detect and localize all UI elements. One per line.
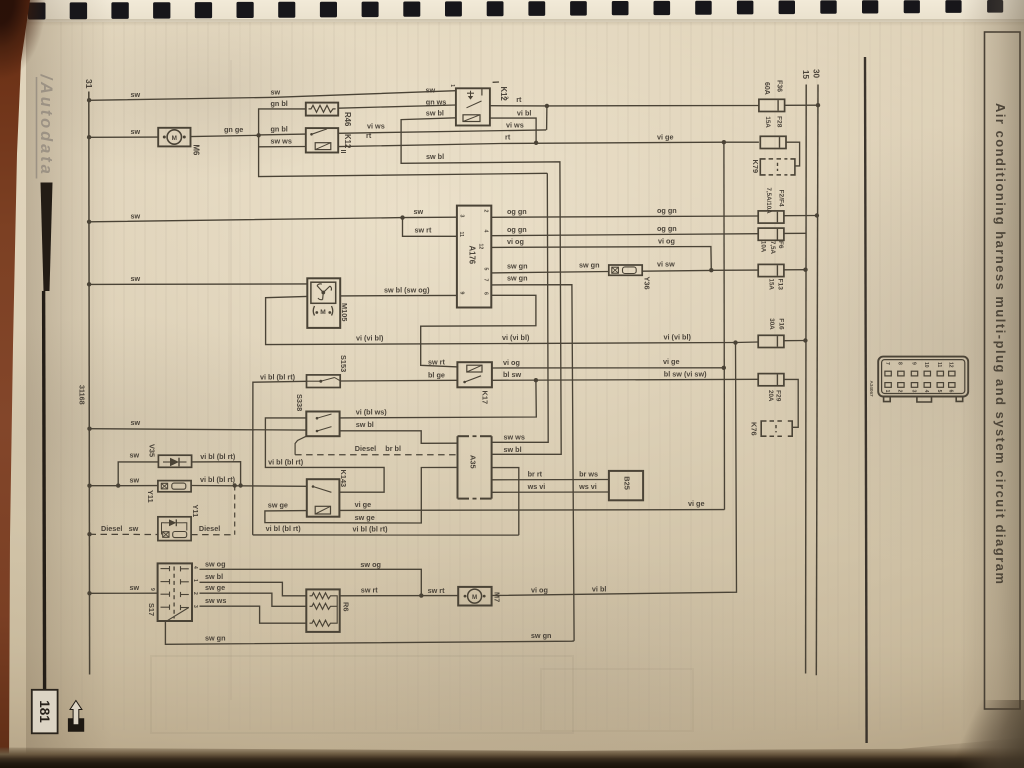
label K76 (749, 422, 758, 436)
svg-text:M: M (472, 594, 477, 601)
fan motor M105 (307, 278, 340, 328)
junction vi ge/rt (722, 140, 726, 144)
wire sw ge (S17 pin2 to R6) (200, 593, 307, 606)
riser vi ws to rt junction (546, 106, 548, 130)
wire label sw (131, 274, 141, 283)
wire label sw (130, 583, 140, 592)
svg-text:br rt: br rt (528, 469, 543, 478)
wire sw ws loop (bus via 258.6 riser to K12 II) (259, 135, 548, 176)
junction on bus 31 (87, 220, 91, 224)
pin 2 of S17 (192, 592, 198, 595)
junction sw/V35 (116, 483, 120, 487)
wire label sw og (205, 559, 226, 568)
label Y11 (diesel) (191, 505, 200, 518)
label Y36 (642, 277, 651, 290)
pin 9 of S17 (149, 588, 155, 591)
svg-text:sw bl: sw bl (426, 108, 444, 117)
junction sw/sw rt (400, 215, 404, 219)
junction F16/bus15 (803, 338, 807, 342)
label F2/F4 7,5A/10A (765, 188, 784, 215)
junction bl sw/S338 riser (534, 378, 538, 382)
svg-text:K17: K17 (481, 391, 490, 405)
wire sw bl (S338 to A35) (340, 431, 458, 444)
svg-text:vi bl: vi bl (592, 585, 607, 594)
wire label vi (vi bl) (356, 334, 384, 343)
wire bl sw (K17 to F29) (492, 379, 758, 380)
svg-text:sw ge: sw ge (205, 583, 225, 592)
svg-text:sw: sw (130, 475, 140, 484)
svg-text:gn bl: gn bl (271, 99, 288, 108)
wire sw ws (S17 pin3 to R6) (200, 606, 307, 623)
control unit A35 (dashed box) (458, 436, 492, 498)
wire label sw bl (356, 420, 374, 429)
catalogue number A34067 (869, 381, 874, 398)
label S338 (295, 394, 304, 411)
wire label sw (130, 475, 140, 484)
label F16 30A (768, 318, 785, 330)
wire sw (bus31 to A176 pin3) (89, 217, 457, 222)
junction vi bl/rt (534, 141, 538, 145)
connector multi-plug illustration (878, 357, 968, 402)
svg-text:sw ws: sw ws (504, 433, 525, 442)
wire sw (bus31 to S338) (90, 429, 307, 430)
svg-text:F16: F16 (778, 318, 785, 330)
wire vi ge (K143 to riser) (339, 509, 724, 512)
wire label sw ge (205, 583, 225, 592)
wire label sw ws (504, 433, 525, 442)
label R6 (342, 602, 351, 611)
wire sw bl (sw og) (M105 to A176 pin9) (340, 294, 457, 297)
wire label sw bl (504, 445, 522, 454)
svg-text:4: 4 (923, 390, 929, 393)
label Y11 (146, 490, 155, 503)
node 30 label (812, 69, 821, 79)
wire Diesel dashed (Y11 II to riser) (191, 534, 235, 536)
wire sw riser to V35 (118, 462, 158, 486)
svg-text:31: 31 (84, 79, 94, 89)
wire label sw rt (361, 586, 379, 595)
svg-text:sw gn: sw gn (205, 633, 226, 642)
motor M6 (158, 128, 190, 147)
junction vi og/vi sw (709, 268, 713, 272)
svg-text:sw: sw (426, 86, 436, 95)
wire label sw ws (271, 137, 292, 146)
wire label ws vi (578, 482, 597, 491)
label F13 15A (768, 279, 784, 291)
svg-text:sw rt: sw rt (428, 357, 446, 366)
svg-text:15: 15 (801, 70, 810, 80)
svg-text:Y36: Y36 (642, 277, 651, 290)
wire F36 to bus 30 (785, 104, 818, 106)
svg-text:sw ws: sw ws (271, 137, 292, 146)
wire label vi ge (355, 500, 372, 509)
double switch S338 (306, 412, 339, 437)
svg-text:bl sw: bl sw (503, 370, 521, 379)
svg-text:M6: M6 (192, 145, 201, 156)
wire label og gn (657, 206, 677, 215)
wire sw ge (K143 coil loop to A35) (265, 467, 458, 523)
wire label vi og (507, 237, 524, 246)
svg-text:sw gn: sw gn (531, 631, 552, 640)
label F28 15A (764, 116, 783, 128)
wire label sw (130, 451, 140, 460)
svg-text:A176: A176 (467, 246, 476, 265)
svg-text:7: 7 (482, 279, 488, 282)
svg-text:4: 4 (482, 230, 488, 233)
label M7 (492, 592, 501, 602)
svg-text:K12: K12 (499, 87, 508, 102)
wire bus 15 vertical (805, 85, 808, 674)
wire label sw bl (426, 108, 444, 117)
svg-text:sw bl: sw bl (504, 445, 522, 454)
svg-text:vi ws: vi ws (367, 121, 385, 130)
svg-text:7,5A/10A: 7,5A/10A (765, 188, 772, 215)
wire vi bl (K12 to rt wire) (490, 118, 536, 143)
wire label vi og (531, 586, 548, 595)
wire sw og (S17 pin4 to sw rt junction) (200, 569, 422, 595)
pin 4 of S17 (192, 566, 198, 569)
svg-text:vi og: vi og (658, 237, 675, 246)
wire vi bl (bl rt) (V35 out) (192, 462, 241, 486)
svg-text:K79: K79 (751, 160, 760, 174)
svg-text:sw bl (sw og): sw bl (sw og) (384, 285, 430, 294)
junction rt/vi ws (545, 104, 549, 108)
wire F28 loop to K79 (786, 142, 800, 166)
wire sw (bus31 to S17) (90, 592, 158, 594)
svg-text:br bl: br bl (385, 444, 401, 453)
svg-text:sw gn: sw gn (507, 261, 528, 270)
svg-text:vi bl (bl rt): vi bl (bl rt) (353, 524, 389, 533)
wire label vi bl (592, 585, 607, 594)
svg-text:A35: A35 (468, 455, 477, 469)
pin 2 of A176 (482, 210, 488, 213)
wire rt to F36 (547, 105, 759, 107)
wire vi ge riser (F28 to bottom row) (723, 142, 726, 509)
wire label vi bl (bl rt) (268, 457, 304, 466)
wire gn ge (M6 to junction) (191, 135, 259, 136)
wire label gn bl (271, 99, 288, 108)
svg-text:S153: S153 (339, 355, 348, 372)
svg-text:vi ge: vi ge (657, 133, 674, 142)
label A35 (468, 455, 477, 469)
wire label sw gn (507, 274, 528, 283)
wire label gn ge (224, 125, 243, 134)
svg-text:3: 3 (458, 215, 464, 218)
svg-text:5: 5 (482, 268, 488, 271)
svg-text:Diesel: Diesel (199, 524, 220, 533)
svg-text:R6: R6 (342, 602, 351, 611)
svg-text:sw rt: sw rt (428, 586, 446, 595)
wire label gn ws (426, 97, 447, 106)
svg-text:Y11: Y11 (146, 490, 155, 503)
wire vi og / vi bl (M7 to vi-vi-bl riser) (492, 343, 737, 596)
wire label sw rt (428, 586, 446, 595)
label V35 (147, 444, 156, 457)
wire label sw bl (sw og) (384, 285, 430, 294)
svg-text:12: 12 (477, 244, 483, 250)
wire label vi bl (bl rt) (200, 475, 236, 484)
logo underline swoosh (41, 183, 53, 292)
junction F2F4/bus30 (815, 213, 819, 217)
svg-text:sw rt: sw rt (415, 225, 433, 234)
fuse F6 (758, 228, 784, 240)
wire label og gn (507, 207, 527, 216)
wire label sw og (360, 560, 381, 569)
valve Y11 (diesel) (158, 517, 191, 541)
svg-text:F36: F36 (776, 80, 783, 92)
svg-text:6: 6 (483, 292, 489, 295)
wire label vi og (503, 358, 520, 367)
svg-text:1: 1 (192, 579, 198, 582)
svg-text:vi bl (bl rt): vi bl (bl rt) (260, 372, 296, 381)
pin 5 of A176 (482, 268, 488, 271)
svg-text:8: 8 (897, 362, 903, 365)
svg-text:gn ws: gn ws (426, 97, 447, 106)
wire sw rt (R6 to M7) (340, 595, 459, 597)
fuse F2/F4 (758, 211, 784, 223)
wire label sw (129, 524, 139, 533)
svg-text:bl ge: bl ge (428, 371, 445, 380)
svg-text:30: 30 (812, 69, 821, 79)
resistor pack R6 (306, 589, 339, 632)
junction sw og/sw rt (419, 593, 423, 597)
svg-text:gn bl: gn bl (271, 125, 288, 134)
svg-text:rt: rt (505, 133, 511, 142)
wire sw bl (S17 pin1 to R6) (200, 582, 307, 596)
sensor B25 (609, 471, 643, 500)
svg-text:F29: F29 (775, 390, 782, 402)
svg-text:sw gn: sw gn (507, 274, 528, 283)
wire gn bl riser to R46 (259, 109, 306, 135)
resistor R46 (306, 103, 338, 116)
wire label sw (271, 88, 281, 97)
svg-text:11: 11 (458, 232, 464, 238)
relay K143 (307, 479, 340, 517)
wire label vi ge (657, 133, 674, 142)
svg-text:10A: 10A (760, 241, 767, 253)
svg-text:15A: 15A (768, 279, 775, 291)
left rule (44, 291, 45, 690)
wire vi bl (bl rt) row (253, 534, 519, 536)
Autodata logo (37, 74, 56, 179)
pin 11 of A176 (458, 232, 464, 238)
wire label vi (vi bl) (664, 333, 692, 342)
wire label sw (414, 207, 424, 216)
wire gn bl (junction to K12 II) (259, 133, 306, 136)
wire label bl ge (428, 371, 445, 380)
label S17 (147, 603, 156, 616)
svg-text:M105: M105 (340, 303, 349, 322)
svg-text:sw: sw (414, 207, 424, 216)
label S153 (339, 355, 348, 372)
wire sw (bus31 to M105) (89, 283, 307, 286)
label K12 II (339, 134, 352, 154)
wire label og gn (657, 224, 677, 233)
svg-text:S338: S338 (295, 394, 304, 411)
wire vi bl (bl rt) (Y11 to K143) (191, 485, 307, 488)
svg-text:vi ge: vi ge (688, 499, 705, 508)
wire label sw ge (268, 501, 288, 510)
svg-text:sw: sw (130, 451, 140, 460)
junction V35 riser (238, 483, 242, 487)
sidebar box (985, 32, 1021, 709)
wire label bl sw (503, 370, 521, 379)
wire rt (K12 II coil to F28) (338, 142, 759, 146)
wire gn ws (R46 to K12) (338, 105, 456, 108)
wire label sw gn (579, 260, 600, 269)
junction gn ge (256, 133, 260, 137)
wire vi og (A176 pin12) (491, 247, 711, 271)
wire label br bl (385, 444, 401, 453)
wire vi ws (K12 II to riser) (338, 130, 546, 133)
junction F36/bus30 (816, 103, 820, 107)
svg-text:M7: M7 (492, 592, 501, 602)
wire label rt (516, 95, 522, 104)
pin 4 of A176 (482, 230, 488, 233)
svg-text:F13: F13 (777, 279, 784, 291)
svg-text:R46: R46 (343, 112, 352, 127)
svg-text:4: 4 (192, 566, 198, 569)
svg-text:vi (bl ws): vi (bl ws) (356, 408, 388, 417)
svg-text:vi bl: vi bl (517, 109, 532, 118)
junction on bus 31 (87, 427, 91, 431)
wire sw (bus31 to Y11) (90, 485, 158, 487)
svg-text:og gn: og gn (657, 224, 677, 233)
wire label sw gn (205, 633, 226, 642)
label M6 (192, 145, 201, 156)
svg-text:/Autodata: /Autodata (37, 74, 55, 177)
svg-text:1: 1 (449, 84, 455, 87)
svg-text:ws vi: ws vi (527, 482, 546, 491)
page-up arrow icon (68, 701, 84, 732)
wire vi sw (Y36 to F13 line) (642, 270, 758, 271)
wire label sw rt (428, 357, 446, 366)
wire label sw (426, 86, 436, 95)
svg-text:vi sw: vi sw (657, 260, 675, 269)
svg-text:vi ge: vi ge (663, 357, 680, 366)
junction on bus 31 (87, 98, 91, 102)
junction dashed riser (233, 483, 237, 487)
wire sw rt (A176 pin6 S-path to K17) (421, 295, 536, 367)
svg-text:60A: 60A (763, 82, 770, 95)
svg-text:vi og: vi og (503, 358, 520, 367)
svg-text:sw: sw (131, 418, 141, 427)
wire bus 31 vertical (88, 92, 91, 675)
wire bl ge (S153 to K17) (340, 379, 457, 382)
svg-text:20A: 20A (767, 390, 774, 402)
spiral binding holes (28, 0, 1003, 20)
label F36 60A (763, 80, 782, 95)
wire vi bl (bl rt) (S153 left riser) (253, 381, 307, 535)
wire label gn bl (271, 125, 288, 134)
svg-text:12: 12 (948, 362, 954, 368)
wire F13 to bus15 (784, 269, 806, 271)
fuse F29 (758, 374, 784, 386)
svg-text:br ws: br ws (579, 469, 598, 478)
pin 1 of S17 (192, 579, 198, 582)
wire sw (bus31 to K12 pin1) (89, 91, 456, 101)
wire label vi bl (bl rt) (353, 524, 389, 533)
label K12 (493, 82, 509, 101)
wire A35 to vi bl row riser (492, 468, 519, 535)
svg-text:3: 3 (192, 605, 198, 608)
svg-text:sw: sw (129, 524, 139, 533)
svg-text:K76: K76 (749, 422, 758, 436)
wire sw rt (to A176 pin11) (403, 218, 457, 237)
wire label br ws (579, 469, 598, 478)
label M105 (340, 303, 349, 322)
wire Diesel br bl (dashed to A35) (295, 454, 457, 456)
wire vi bl (bl rt) (K143 switch to S338) (265, 418, 384, 492)
junction on bus 31 (87, 135, 91, 139)
label F6 7,5A 10A (760, 241, 784, 255)
svg-text:vi (vi bl): vi (vi bl) (356, 334, 384, 343)
svg-text:sw ge: sw ge (355, 513, 375, 522)
svg-text:bl sw (vi sw): bl sw (vi sw) (664, 370, 707, 379)
svg-text:sw: sw (131, 127, 141, 136)
relay K12 (456, 88, 490, 125)
svg-text:9: 9 (910, 362, 916, 365)
wire F29 loop to K76 (784, 379, 798, 427)
wire label vi bl (517, 109, 532, 118)
vertical rule (865, 57, 867, 743)
junction on bus 31 (87, 532, 91, 536)
control unit A176 (457, 206, 491, 308)
svg-text:sw gn: sw gn (579, 260, 600, 269)
svg-text:M: M (172, 135, 177, 142)
wire vi (bl ws) (S338 to bl sw riser) (340, 380, 537, 418)
svg-text:1: 1 (884, 390, 890, 393)
relay K12 II (306, 128, 338, 152)
wire label vi ws (506, 121, 524, 130)
wire bus 30 vertical (816, 85, 818, 676)
wire sw ws (A35 to K12II loop riser) (492, 173, 548, 442)
svg-text:sw rt: sw rt (361, 586, 379, 595)
wire label vi ge (688, 499, 705, 508)
svg-text:10: 10 (923, 362, 929, 368)
wire label sw (131, 127, 141, 136)
svg-text:11: 11 (936, 362, 942, 368)
wire vi ge (K17 right to vi-ge riser) (492, 367, 724, 369)
junction vi (vi bl) (733, 340, 737, 344)
svg-text:vi ge: vi ge (355, 500, 372, 509)
svg-text:sw: sw (131, 212, 141, 221)
pin 9 of A176 (458, 292, 464, 295)
wire vi (vi bl) (M105 loop to F16) (266, 296, 759, 344)
pin 6 of A176 (483, 292, 489, 295)
svg-text:S17: S17 (147, 603, 156, 616)
valve Y11 (158, 481, 191, 492)
wire label 31168 (78, 385, 87, 405)
fuse F28 (760, 136, 786, 148)
wire label bl sw (vi sw) (664, 370, 707, 379)
svg-text:sw og: sw og (360, 560, 381, 569)
svg-text:Diesel: Diesel (101, 524, 122, 533)
fuse F36 (759, 99, 785, 111)
wire sw (bus31 to M6) (89, 136, 158, 138)
label F29 20A (767, 390, 782, 402)
label K79 (751, 160, 760, 174)
svg-text:2: 2 (192, 592, 198, 595)
wire label Diesel (355, 444, 376, 453)
sidebar title (993, 103, 1008, 585)
svg-text:6: 6 (948, 390, 954, 393)
svg-text:M: M (320, 309, 326, 316)
wire og gn (A176 pin2 to F2/F4) (491, 216, 758, 217)
wire label sw (131, 212, 141, 221)
junction on bus 31 (87, 591, 91, 595)
svg-text:F28: F28 (776, 116, 783, 128)
